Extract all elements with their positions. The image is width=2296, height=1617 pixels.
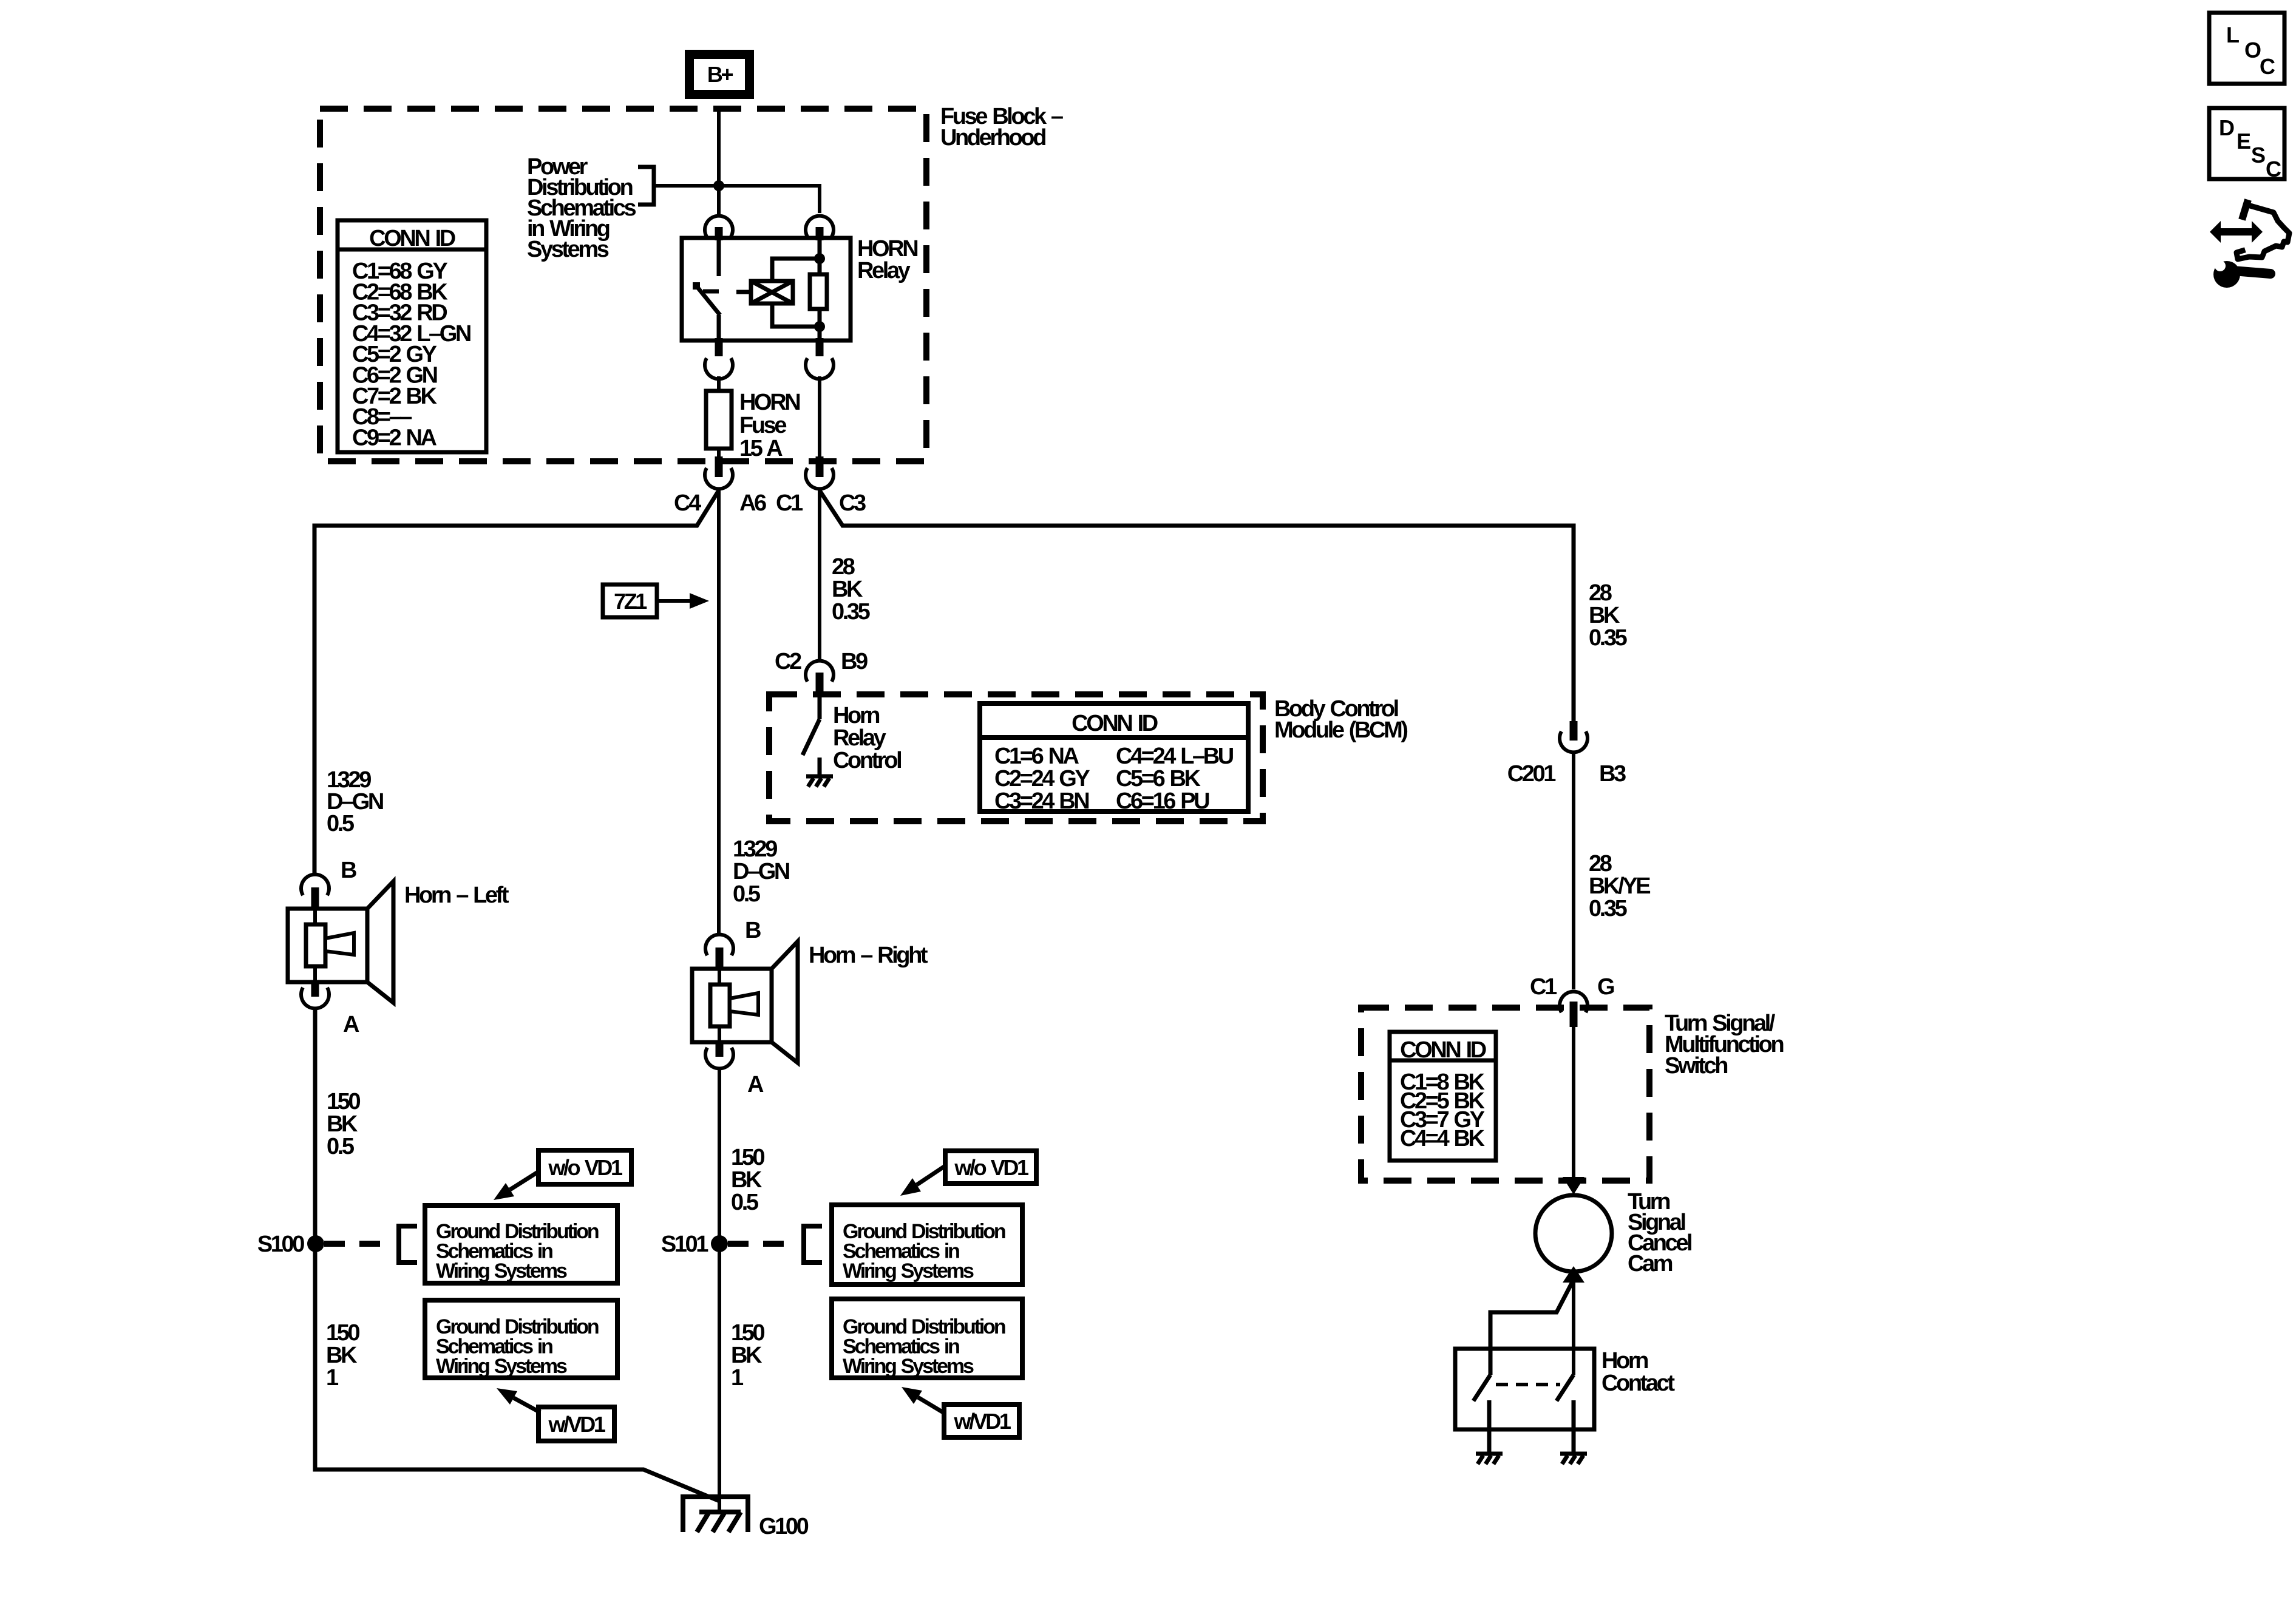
splice S101 — [661, 1226, 822, 1263]
wire junction to relay pin 30 — [717, 186, 721, 215]
relay right pin bottom stub — [816, 338, 824, 356]
ground (horn contact left) — [1476, 1454, 1503, 1464]
svg-text:C1: C1 — [1530, 974, 1557, 1000]
relay coil (X box) — [751, 281, 793, 303]
wire horn left to S100 and G100 — [315, 1009, 719, 1501]
wire C1 branch down to BCM — [818, 490, 821, 661]
ground G100 — [683, 1497, 809, 1539]
wire relay pin 85 to connector C1/C3 — [818, 376, 821, 459]
option tag w/VD1 (left) — [497, 1388, 614, 1441]
connector C1/G male stub — [1570, 1002, 1578, 1027]
svg-text:w/o VD1: w/o VD1 — [954, 1155, 1029, 1180]
BCM CONN ID table — [980, 703, 1248, 814]
svg-text:CONN ID: CONN ID — [369, 226, 455, 251]
option tag w/VD1 (right) — [902, 1387, 1019, 1437]
wire relay to horn fuse — [717, 376, 721, 393]
relay coil left stub — [736, 290, 751, 294]
turn signal cancel cam — [1535, 1195, 1612, 1272]
wire power distribution feed to relay pins — [654, 186, 820, 213]
ground (BCM internal) — [806, 776, 833, 787]
svg-text:Horn – Left: Horn – Left — [404, 883, 509, 908]
svg-text:C1=8 BKC2=5 BKC3=7 GYC4=4 BK: C1=8 BKC2=5 BKC3=7 GYC4=4 BK — [1400, 1070, 1486, 1151]
ground distribution reference box (left lower) — [425, 1300, 617, 1378]
svg-text:7Z1: 7Z1 — [614, 589, 647, 614]
wire cam to horn contact right switch — [1572, 1280, 1575, 1375]
horn contact left switch blade — [1473, 1375, 1490, 1401]
horn relay box — [682, 238, 851, 341]
turn signal / multifunction switch enclosure — [1361, 1008, 1649, 1181]
svg-text:A: A — [343, 1012, 359, 1037]
arrow into cancel cam — [1563, 1177, 1584, 1195]
relay coil top lead — [772, 259, 820, 281]
svg-text:B+: B+ — [707, 62, 733, 87]
fuse block CONN ID table — [338, 220, 486, 452]
svg-text:HORNRelay: HORNRelay — [857, 236, 917, 283]
svg-text:E: E — [2237, 129, 2250, 154]
ground distribution reference box (right upper) — [832, 1205, 1022, 1284]
ground distribution reference box (left upper) — [425, 1205, 617, 1283]
connector cup below relay right pin — [806, 358, 834, 379]
BCM horn relay control switch blade — [803, 719, 820, 755]
bracket for power distribution note — [638, 167, 654, 205]
connector terminal arc (relay left pin) — [705, 216, 733, 237]
svg-text:B: B — [341, 858, 356, 883]
svg-text:C: C — [2260, 54, 2275, 79]
svg-text:A6: A6 — [739, 490, 766, 516]
svg-text:Body ControlModule (BCM): Body ControlModule (BCM) — [1274, 696, 1407, 743]
svg-text:D: D — [2219, 115, 2234, 140]
svg-text:G: G — [1597, 974, 1614, 1000]
wire B+ feed down to junction — [717, 107, 721, 186]
svg-text:C1: C1 — [776, 490, 803, 516]
splice S100 — [257, 1226, 417, 1263]
relay switch fixed contact stub — [717, 238, 721, 276]
relay coil bottom lead — [772, 303, 820, 327]
svg-text:C1=6 NAC2=24 GYC3=24 BN: C1=6 NAC2=24 GYC3=24 BN — [994, 744, 1090, 814]
wire cam branch to horn contact left switch — [1490, 1282, 1572, 1375]
svg-text:B9: B9 — [841, 649, 868, 674]
svg-text:C2: C2 — [775, 649, 801, 674]
junction dot coil/resistor bottom — [814, 321, 825, 332]
horn contact switch linkage (dashed) — [1496, 1383, 1560, 1386]
BCM switch ground lead — [818, 758, 822, 776]
arrow from cancel cam — [1563, 1266, 1584, 1283]
svg-text:CONN ID: CONN ID — [1072, 711, 1158, 736]
service information icon (arrow hand wrench) — [2210, 200, 2289, 288]
connector C201/B3 male stub — [1570, 721, 1578, 741]
connector C1/G female arc — [1560, 992, 1588, 1012]
svg-text:Horn – Right: Horn – Right — [809, 943, 928, 968]
connector C4/A6 male stub — [715, 456, 723, 477]
option tag w/o VD1 (left) — [494, 1150, 631, 1200]
relay right terminal top lead — [818, 238, 822, 274]
DESC reference icon — [2209, 108, 2284, 181]
connector C2/B9 male stub into BCM — [816, 673, 824, 696]
option tag w/o VD1 (right) — [900, 1151, 1036, 1196]
horn contact right switch blade — [1557, 1375, 1574, 1401]
circuit tag 7Z1 — [603, 585, 709, 617]
connector C1/C3 male stub — [816, 456, 824, 477]
relay switch output lead — [717, 315, 721, 341]
ground distribution reference box (right lower) — [832, 1299, 1022, 1378]
relay left pin bottom stub — [715, 338, 723, 356]
svg-text:C201: C201 — [1507, 761, 1557, 787]
body control module enclosure — [769, 694, 1263, 821]
connector terminal arc (relay right pin) — [806, 216, 834, 237]
connector C1/C3 female cup — [806, 468, 834, 489]
horn contact box — [1455, 1349, 1594, 1429]
svg-text:C4: C4 — [674, 490, 701, 516]
horn contact left fixed contact lead — [1487, 1400, 1492, 1454]
turn signal switch CONN ID table — [1390, 1032, 1496, 1161]
svg-text:S: S — [2251, 143, 2265, 168]
svg-text:B: B — [745, 918, 761, 943]
relay right pin male stub — [816, 227, 824, 240]
wire fuse to connector C4/A6 — [717, 449, 721, 459]
ground (horn contact right) — [1560, 1454, 1587, 1464]
connector C2/B9 female arc — [806, 661, 834, 682]
svg-text:B3: B3 — [1599, 761, 1626, 787]
junction dot coil/resistor top — [814, 253, 825, 264]
relay switch blade — [693, 282, 720, 315]
power terminal B+ — [685, 50, 754, 99]
svg-text:w/VD1: w/VD1 — [953, 1409, 1011, 1434]
connector C4/A6 female cup — [705, 468, 733, 489]
svg-text:Fuse Block –Underhood: Fuse Block –Underhood — [940, 104, 1063, 151]
fuse HORN 15 A — [706, 391, 732, 449]
fuse block underhood enclosure — [320, 109, 926, 461]
wire C4 branch to horn left — [314, 490, 719, 873]
wire horn right to S101 and G100 — [718, 1069, 721, 1512]
relay right terminal bottom lead — [818, 309, 822, 341]
LOC reference icon — [2209, 13, 2284, 84]
wire A6 branch down to horn right — [717, 490, 721, 934]
svg-text:A: A — [747, 1072, 764, 1097]
svg-text:G100: G100 — [759, 1514, 809, 1539]
wire C201 to turn signal switch — [1572, 753, 1575, 989]
svg-text:w/VD1: w/VD1 — [548, 1412, 605, 1437]
svg-text:S100: S100 — [257, 1232, 304, 1257]
connector C201/B3 female cup — [1560, 731, 1588, 752]
horn contact right fixed contact lead — [1572, 1400, 1576, 1454]
relay left pin male stub — [715, 227, 723, 240]
BCM horn relay control switch input — [818, 696, 822, 719]
horn right symbol — [692, 935, 798, 1069]
horn left symbol — [288, 875, 393, 1009]
relay internal resistor — [810, 274, 827, 309]
wire switch to cancel cam — [1572, 1027, 1575, 1179]
svg-text:L: L — [2226, 22, 2239, 47]
svg-text:CONN ID: CONN ID — [1400, 1037, 1486, 1063]
svg-text:O: O — [2244, 38, 2261, 63]
svg-text:S101: S101 — [661, 1232, 708, 1257]
svg-text:C: C — [2266, 157, 2281, 181]
svg-text:w/o VD1: w/o VD1 — [548, 1155, 623, 1180]
svg-text:C3: C3 — [839, 490, 866, 516]
wire C3 branch to the right — [820, 490, 1574, 722]
junction node at B+ feed — [713, 180, 724, 191]
connector cup below relay left pin — [705, 358, 733, 379]
